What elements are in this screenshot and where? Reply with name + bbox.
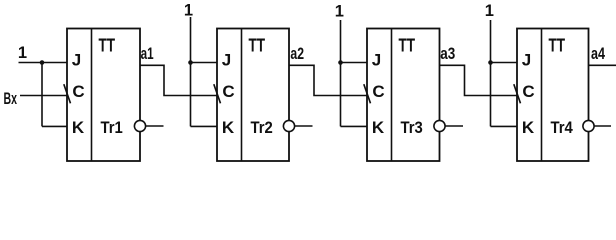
inverted output circle (U2)	[283, 120, 294, 131]
dynamic C input slash (U3)	[364, 84, 371, 103]
wire a4 output	[589, 64, 616, 66]
inverted output circle (U3)	[434, 120, 445, 131]
svg-text:a4: a4	[591, 45, 606, 63]
flip-flop U2 box	[217, 29, 289, 162]
junction dot node 1-J (U3)	[338, 60, 343, 65]
svg-text:Tr3: Tr3	[401, 118, 423, 137]
svg-text:TT: TT	[249, 36, 266, 56]
svg-text:C: C	[72, 82, 84, 101]
svg-text:a3: a3	[440, 45, 455, 63]
svg-text:TT: TT	[399, 36, 416, 56]
inverted output circle (U4)	[583, 120, 594, 131]
svg-text:a1: a1	[141, 45, 154, 63]
junction dot node 1-J (U4)	[488, 60, 493, 65]
wire Q-bar stub (U2)	[295, 125, 313, 127]
wire a1 from U1 to C of U2	[140, 65, 217, 95]
svg-text:C: C	[522, 82, 534, 101]
svg-text:J: J	[72, 50, 81, 69]
svg-text:1: 1	[335, 3, 344, 21]
wire a3 from U3 to C of U4	[440, 65, 518, 95]
svg-text:TT: TT	[549, 36, 566, 56]
wire 1 down (U3)	[340, 20, 342, 63]
svg-text:K: K	[222, 118, 235, 137]
flip-flop U3 box	[367, 29, 440, 162]
wire Bx to C input (U1)	[20, 95, 67, 97]
svg-text:TT: TT	[99, 36, 116, 56]
wire 1 down (U4)	[490, 20, 492, 63]
flip-flop U1 box	[67, 29, 140, 162]
svg-text:C: C	[372, 82, 384, 101]
wire to J input (U4)	[491, 62, 518, 64]
junction dot node 1-J (U1)	[40, 60, 45, 65]
flip-flop U4 box	[517, 29, 589, 162]
wire junction down to K level (U3)	[340, 63, 342, 127]
wire junction down to K level (U1)	[41, 63, 43, 127]
svg-text:K: K	[72, 118, 85, 137]
svg-text:J: J	[522, 50, 531, 69]
wire junction down to K level (U4)	[490, 63, 492, 127]
wire to J input (U3)	[341, 62, 368, 64]
svg-text:K: K	[522, 118, 535, 137]
svg-text:C: C	[222, 82, 234, 101]
wire to K input (U3)	[341, 125, 368, 127]
svg-text:Tr4: Tr4	[551, 118, 574, 137]
svg-text:K: K	[372, 118, 385, 137]
wire 1 down (U2)	[190, 17, 192, 63]
dynamic C input slash (U2)	[214, 84, 221, 103]
svg-text:a2: a2	[290, 45, 304, 63]
wire a2 from U2 to C of U3	[289, 65, 367, 95]
svg-text:Tr2: Tr2	[251, 118, 273, 137]
wire Q-bar stub (U4)	[594, 125, 611, 127]
dynamic C input slash (U1)	[64, 84, 71, 103]
junction dot node 1-J (U2)	[188, 60, 193, 65]
svg-text:J: J	[372, 50, 381, 69]
wire to K input (U1)	[42, 125, 67, 127]
inverted output circle (U1)	[134, 120, 145, 131]
wire junction down to K level (U2)	[190, 63, 192, 127]
svg-text:Bx: Bx	[4, 89, 18, 108]
wire Q-bar stub (U1)	[146, 125, 164, 127]
svg-text:1: 1	[18, 44, 27, 62]
wire Q-bar stub (U3)	[445, 125, 463, 127]
svg-text:J: J	[222, 50, 231, 69]
wire 1 to J input (U1)	[19, 62, 68, 64]
svg-text:Tr1: Tr1	[101, 118, 123, 137]
dynamic C input slash (U4)	[514, 84, 521, 103]
wire to J input (U2)	[191, 62, 218, 64]
wire to K input (U2)	[191, 125, 218, 127]
wire to K input (U4)	[491, 125, 518, 127]
svg-text:1: 1	[184, 2, 193, 20]
svg-text:1: 1	[485, 2, 494, 20]
